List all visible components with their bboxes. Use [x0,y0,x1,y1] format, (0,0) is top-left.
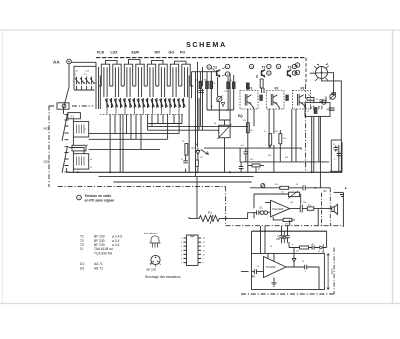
wire P1 left [188,217,190,219]
wire y182 [113,181,251,183]
wire right top [331,139,342,141]
voltage circle T3c [292,71,296,75]
svg-text:9: 9 [203,259,205,261]
svg-text:460: 460 [326,109,329,111]
svg-text:AB 71: AB 71 [94,266,103,270]
AVC wire row [250,187,330,189]
coil box L4 [73,154,88,169]
mid verticals from wafer [110,72,199,177]
connector box at shield entry [57,103,69,109]
wire amp2 out [286,267,319,290]
F3 transformer core [298,94,307,109]
output electrolytic [300,205,302,213]
T1 probe lines [211,67,225,76]
svg-text:10: 10 [270,246,272,248]
svg-text:C1: C1 [74,74,76,76]
GO switch contacts [62,146,69,173]
AVC circle slash [261,184,264,187]
svg-text:F3: F3 [301,87,305,91]
speaker LS [332,204,338,214]
opamp U1 triangle [271,200,290,217]
svg-text:INT: INT [155,51,162,55]
svg-text:10: 10 [203,254,206,256]
bead cap right [319,100,323,102]
pushbutton unit 5 [147,64,155,97]
oscillator coil box [219,125,230,138]
voltage circle T1b [225,64,229,68]
svg-text:25: 25 [296,184,298,186]
svg-text:11: 11 [203,250,206,252]
wire amp2 top pins [268,254,274,262]
svg-text:5: 5 [305,271,306,273]
contact cluster B [128,98,149,108]
trimmer right arrow [330,93,336,99]
stubs above bus [261,226,288,231]
svg-text:1n5: 1n5 [281,192,284,194]
pushbutton top bridges [106,60,187,65]
bus left drop [64,112,67,172]
svg-text:L3: L3 [86,145,88,147]
output resistor [307,207,314,210]
svg-text:220: 220 [225,91,228,93]
svg-text:GO: GO [44,160,50,164]
svg-text:4k7: 4k7 [296,251,299,253]
left shield dash-dot horizontal [49,105,93,107]
resistor under F1 [246,123,249,133]
wire gang bottom avc [322,79,342,173]
svg-text:SCHEMA: SCHEMA [186,40,227,49]
svg-text:BF 230: BF 230 [147,268,157,272]
svg-text:D2: D2 [192,147,196,150]
right IF coil box [305,103,330,117]
svg-text:LUX: LUX [111,51,119,55]
tiny value labels [196,80,233,94]
svg-text:470: 470 [275,184,278,186]
battery plus dot [345,187,347,189]
wire gang right [328,73,334,93]
decoupling cap b [285,231,290,242]
voltage circle T1a [207,65,211,69]
svg-text:22n: 22n [250,130,253,132]
pushbutton unit 2 [113,64,121,97]
vertical feed to volume pot [196,177,198,219]
IC DIP package body [187,235,199,266]
svg-text:D1: D1 [260,207,264,210]
resistor R bias5 wire [233,75,235,110]
feedback component box [289,192,300,196]
capacitor x245.8 [244,148,249,162]
svg-text:10k: 10k [196,80,199,82]
antenna trimmer 2 [80,77,85,91]
svg-text:2R: 2R [182,141,185,143]
wire y161.9 [240,161,329,163]
svg-text:250: 250 [308,205,311,207]
electrolytic cap right a [334,146,338,152]
wire y139.3 [89,138,168,140]
left shield dash-dot vertical [48,106,50,187]
svg-text:L5: L5 [90,167,92,169]
antenna trimmer 4 [90,77,95,91]
transistor T2 [262,70,266,77]
coil L2 winding [77,125,85,134]
package pin leads [150,264,160,267]
IF filter F2 box [266,90,284,109]
tuning gang hub [321,72,323,74]
pushbutton unit 4 [136,64,144,97]
DIP pins left [184,238,187,263]
resistor R bias3 wire [210,72,212,110]
resistor R bias1 [199,81,202,88]
wire T1 emitter [218,77,220,110]
svg-text:P1: P1 [208,211,212,215]
feedback wire top [254,194,289,218]
svg-text:100: 100 [290,202,293,204]
amp2 enclosure rect [252,254,325,290]
DIP notch [191,235,195,237]
opamp input stub [265,202,270,204]
transistor package bottom view [151,255,160,264]
DIP pins right [198,238,201,263]
svg-text:5: 5 [253,208,254,210]
wire gang left [310,72,317,74]
svg-text:Brochage des transistors: Brochage des transistors [145,275,181,279]
voltage circle T1c [225,72,229,76]
svg-text:100: 100 [311,244,314,246]
resistor under F2 b [279,134,282,144]
diode on supply row [320,244,323,251]
battery wire [340,192,344,227]
svg-text:15: 15 [181,159,183,161]
resistor R bias2 wire [206,72,208,110]
svg-text:5: 5 [181,254,183,256]
IF filter F1 box [240,90,258,109]
svg-text:16.5: 16.5 [330,268,334,274]
oscillator vertical x197.5 [197,62,199,147]
resistor R bias4 [227,82,230,89]
resistor R bias1 wire [199,72,201,127]
tuning gang circle [316,67,328,79]
volume pot P1 [189,215,226,221]
AVC capacitor [303,185,305,190]
trimmer right circle [330,94,336,100]
wire bus right corner [326,231,328,247]
trimmer circle on box top [322,100,326,104]
diode D2 [196,148,200,158]
wire D2 column [197,158,199,173]
contact tails [107,108,179,114]
svg-text:L5: L5 [307,111,309,113]
T2 resistor column [260,79,263,88]
F1 transformer core [245,94,254,109]
page edge top [0,29,400,31]
main ground bus [67,171,342,173]
svg-text:T2: T2 [262,66,266,70]
svg-text:6: 6 [292,244,293,246]
IF filter F3 box [293,90,311,109]
resistor horizontal y165 [252,164,260,167]
wire y171.3 [330,170,342,172]
svg-text:PO: PO [180,51,185,55]
svg-text:GO: GO [169,51,175,55]
scattered value labels [74,74,335,278]
trimmer labels [75,71,90,73]
svg-text:100: 100 [276,238,281,241]
trimmer circle osc [217,96,222,101]
svg-text:46: 46 [214,123,216,125]
resistor below D2 [195,160,198,166]
P1 wiper arrow [210,216,213,225]
T1 base bus [192,71,216,73]
capacitor x201 [198,90,204,92]
bus junction dots [77,171,313,173]
PO switch contacts [62,114,69,142]
wire AA stem [64,64,70,112]
wire y133.6 [89,133,179,135]
svg-text:6: 6 [181,259,183,261]
svg-text:5: 5 [334,159,335,161]
voltage circle T2c [267,71,271,75]
pushbutton unit 6 [159,64,167,97]
dashed shield line top [96,57,306,59]
input electrolytic bottom [254,269,256,274]
svg-text:1: 1 [181,238,183,240]
svg-text:L4: L4 [90,159,92,161]
dashed shield right corner down [305,58,307,84]
wire resistor h [240,148,264,172]
transistor arrow near D2 [201,150,208,155]
transistor T1 [217,70,221,77]
band labels PLR LUX EUR INT GO PO [97,51,185,55]
dash-dot shield right vertical [305,84,307,172]
oscillator vertical x202.5 [202,67,204,130]
wire resistor drops [270,130,280,172]
svg-text:PLR: PLR [97,51,104,55]
svg-text:50: 50 [277,236,279,238]
svg-text:20: 20 [226,110,228,112]
wire y149.4 [89,148,160,150]
dash-dot AF inner vertical b [329,188,331,226]
svg-text:2.2: 2.2 [71,114,75,118]
wire F1 top [248,83,254,172]
wire right column x342 [341,142,343,172]
capacitor below [183,155,188,172]
contact cluster D [173,98,185,108]
contact cluster C [151,98,172,108]
tuning gang spokes [314,66,329,81]
coil box L2 [73,122,88,137]
svg-text:1k: 1k [264,131,266,133]
svg-text:10n: 10n [283,138,286,140]
svg-text:5k6: 5k6 [275,131,278,133]
svg-text:A1: A1 [211,105,213,108]
bus drops left [252,231,266,253]
antenna trimmer 3 [85,77,90,91]
wire below opamp [273,209,295,226]
svg-text:7: 7 [181,263,183,265]
svg-text:TCA 830: TCA 830 [266,265,277,269]
svg-text:⌀ 3.4: ⌀ 3.4 [112,243,120,247]
cap bars right of box [329,108,335,110]
svg-text:15: 15 [318,251,320,253]
svg-text:9V: 9V [324,189,328,193]
svg-text:TCA 830 SA: TCA 830 SA [94,251,113,255]
svg-text:4n7: 4n7 [241,145,244,147]
pushbutton unit 7 [170,64,178,97]
bus junction dots bottom [260,230,289,232]
voltage circle T3b [292,64,296,68]
ground symbol amp2 [271,278,276,287]
P1 out junction dot [225,218,227,220]
svg-text:CI: CI [80,247,83,251]
resistor R bias3 [210,81,213,88]
svg-text:D2: D2 [80,266,84,270]
svg-text:1k: 1k [214,83,216,85]
coupling blobs right [332,93,337,95]
wire osc box [219,73,230,172]
electrolytic cap right b [337,152,341,158]
dash-dot AF inner vertical a [321,193,323,226]
wire y148.1 [204,147,302,149]
AVC resistor 470 [280,186,289,189]
coil box L1 [68,113,81,119]
F2 transformer core [271,94,280,109]
svg-text:en PO sans signal: en PO sans signal [85,199,114,203]
trimmer arrow [217,96,223,103]
package pins [153,257,159,262]
coupling blob T2 [260,95,263,101]
svg-text:47: 47 [258,169,260,171]
svg-text:117: 117 [200,157,203,159]
package tab [150,263,152,265]
resistor R bias4 wire [227,77,229,110]
svg-text:T1: T1 [213,66,217,70]
chassis dash-dot main [58,185,226,187]
wire output branch down [317,209,319,226]
wire to speaker [314,208,332,210]
opamp U2 triangle [264,257,287,278]
antenna AA terminal circle [67,59,72,64]
resistor 470 bottom [300,246,309,249]
wire into opamp [253,211,271,214]
switch bank vertical pair [99,67,101,109]
wire P1 to amp [226,213,253,219]
svg-text:AA: AA [53,59,60,64]
page edge bottom [0,303,400,305]
chassis dash-dot bottom of AF box [226,225,344,227]
svg-text:25: 25 [252,276,254,278]
resistor R bias2 [206,81,209,88]
wire y147.5 short [69,148,84,154]
wire AA to switch bank [71,61,96,63]
diode vertical amp2 [292,248,296,268]
wire feedback down [300,194,301,204]
svg-text:EQ: EQ [238,114,243,118]
vertical x320.4 [319,116,321,187]
svg-text:4: 4 [181,250,183,252]
input series circles [260,211,264,215]
chassis dash-dot branch down [225,186,227,225]
coil symbols in box [310,106,322,109]
svg-text:2k: 2k [308,95,310,97]
wire F3 bottom [292,109,296,162]
svg-text:8k2: 8k2 [285,157,288,159]
antenna trimmer 1 [75,77,80,91]
wire right column x331.3 [330,140,332,171]
svg-text:2: 2 [181,242,183,244]
wire right column x338.8 [338,145,340,171]
dashed wafer bottom [100,113,183,115]
svg-text:320: 320 [303,202,306,204]
dimension line right [327,254,329,290]
svg-text:F1: F1 [249,87,253,91]
voltage circle T2b [267,64,271,68]
svg-text:12: 12 [203,246,206,248]
vertical x311.7 [311,116,313,172]
vertical x96 [95,62,97,109]
svg-text:2k2: 2k2 [250,159,253,161]
resistor right h [307,98,314,101]
svg-text:F2: F2 [275,87,279,91]
feedback arrow [288,191,298,199]
svg-text:AF: AF [196,143,199,146]
wire y126.4 [148,125,248,127]
svg-text:EUR: EUR [132,51,140,55]
svg-text:base collecteur: base collecteur [144,232,158,235]
battery enclosure top [334,191,344,193]
svg-text:14: 14 [203,238,206,240]
voltage circle T3a [276,64,280,68]
wire box verticals [314,97,330,173]
svg-text:T3: T3 [288,66,292,70]
wire F2 bottom [269,109,274,148]
cap bottom row [312,246,314,250]
pushbutton unit 8 [182,64,190,97]
left column verticals [72,119,74,173]
resistor 2ohm column [185,144,188,156]
resistor R bias5 [232,82,235,89]
pushbutton unit 3 [124,64,132,97]
coil core blob in box [314,108,317,114]
wire x289 up [282,242,290,248]
decoupling cap c [282,231,286,243]
contact cluster A [105,98,126,108]
svg-text:Tension en volts: Tension en volts [85,194,112,198]
wire y247.5 [289,247,327,249]
input coupling cap [257,210,259,215]
page edge left [2,30,4,303]
diode osc [221,103,225,108]
connector circle [62,104,66,108]
svg-text:GO: GO [75,71,78,73]
AVC circle symbol [261,184,265,188]
wire y130.2 [148,129,219,131]
wire amp2 input [241,271,264,273]
svg-text:PO: PO [44,127,50,131]
svg-text:470: 470 [243,120,246,122]
coupling blob T3 [286,95,289,101]
transistor package side view [150,236,161,248]
svg-text:25: 25 [333,144,335,146]
pushbutton base row [98,85,193,87]
wire x191.5 [191,72,193,99]
wire opamp out [290,208,308,210]
svg-text:25: 25 [302,261,304,263]
svg-text:50: 50 [300,149,302,151]
svg-text:100: 100 [268,155,271,157]
transistor T3 [288,70,292,77]
svg-text:39k: 39k [204,80,207,82]
AVC junction dot [315,187,317,189]
